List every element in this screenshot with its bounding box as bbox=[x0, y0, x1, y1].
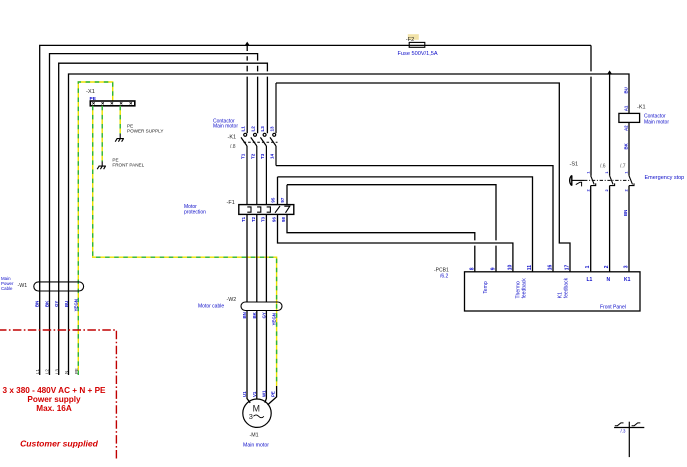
wire L1 bus bbox=[40, 45, 591, 375]
svg-text:W1: W1 bbox=[261, 390, 266, 397]
svg-text:protection: protection bbox=[184, 209, 206, 215]
svg-text:3 x 380 - 480V AC + N + PE: 3 x 380 - 480V AC + N + PE bbox=[2, 386, 106, 395]
svg-text:Front Panel: Front Panel bbox=[600, 305, 626, 311]
svg-text:T1: T1 bbox=[241, 216, 246, 222]
F1 overload element 2 bbox=[257, 207, 261, 212]
svg-text:2: 2 bbox=[605, 189, 609, 191]
terminal X1 block bbox=[90, 101, 135, 106]
chassis earth bottom right bbox=[614, 422, 644, 457]
svg-text:97: 97 bbox=[280, 197, 285, 202]
svg-text:Power supply: Power supply bbox=[27, 395, 81, 404]
S1 contact 3 bbox=[629, 176, 634, 186]
F1 aux NO element bbox=[284, 206, 290, 213]
svg-text:PE: PE bbox=[74, 368, 79, 374]
svg-text:1: 1 bbox=[586, 171, 590, 173]
svg-text:Fuse 500V/1,5A: Fuse 500V/1,5A bbox=[398, 51, 438, 57]
svg-text:-K1: -K1 bbox=[228, 135, 237, 141]
S1 actuator mark bbox=[576, 182, 582, 186]
contactor K1 pole 2 bbox=[251, 133, 257, 204]
svg-text:/.6: /.6 bbox=[600, 163, 606, 169]
svg-text:L1: L1 bbox=[35, 369, 40, 374]
svg-text:N: N bbox=[64, 371, 69, 374]
wire yegn stub green dashes bbox=[101, 106, 103, 162]
svg-text:GY: GY bbox=[261, 312, 266, 318]
motor tilde bbox=[254, 415, 264, 418]
svg-text:1: 1 bbox=[605, 171, 609, 173]
cable W2 bbox=[241, 302, 282, 311]
S1 linkage dashdot bbox=[584, 179, 630, 181]
svg-text:BK: BK bbox=[44, 300, 49, 307]
svg-text:FRONT PANEL: FRONT PANEL bbox=[112, 163, 144, 168]
S1 contact 2 bbox=[610, 176, 615, 186]
wire S1 L1 to PCB bbox=[590, 186, 592, 272]
svg-text:U1: U1 bbox=[242, 391, 247, 397]
svg-text:Main motor: Main motor bbox=[243, 443, 269, 449]
svg-text:1: 1 bbox=[585, 265, 591, 268]
svg-text:YEGN: YEGN bbox=[74, 299, 79, 311]
svg-text:BN: BN bbox=[623, 210, 628, 216]
svg-text:POWER SUPPLY: POWER SUPPLY bbox=[127, 128, 163, 133]
svg-text:-F1: -F1 bbox=[227, 200, 235, 206]
wire N bus bbox=[69, 74, 630, 375]
wire T3 F1 to W2 bbox=[265, 214, 267, 302]
svg-text:T1: T1 bbox=[241, 153, 246, 159]
svg-text:Emergency stop: Emergency stop bbox=[645, 175, 685, 181]
wire yegn X1 to motor PE green dashes bbox=[93, 106, 277, 386]
contactor K1 pole 3 bbox=[260, 133, 266, 204]
node junction N bbox=[607, 70, 612, 74]
svg-text:BK: BK bbox=[623, 142, 628, 149]
node junction L1 bbox=[245, 42, 250, 46]
svg-text:feedback: feedback bbox=[522, 278, 528, 299]
motor M1 circle bbox=[243, 399, 271, 427]
svg-text:BN: BN bbox=[242, 312, 247, 318]
wire F1-95 to PCB pin11 bbox=[278, 177, 533, 272]
wire yegn stub2 green dashes bbox=[119, 106, 121, 134]
terminal X1 screws bbox=[92, 102, 132, 104]
svg-text:A1: A1 bbox=[623, 105, 628, 111]
wire aux13 to PCB pin17 bbox=[276, 83, 570, 272]
F1 overload element 1 bbox=[247, 207, 251, 212]
svg-text:BN: BN bbox=[35, 301, 40, 307]
svg-text:10: 10 bbox=[507, 265, 513, 271]
svg-text:L2: L2 bbox=[45, 369, 50, 374]
svg-text:95: 95 bbox=[271, 197, 276, 202]
wire PE yegn green dashes bbox=[78, 82, 112, 375]
svg-text:8: 8 bbox=[469, 267, 475, 270]
svg-text:L1: L1 bbox=[587, 277, 593, 283]
wire L1 drop to contactor bbox=[246, 45, 248, 133]
wire yegn X1 to motor PE (yellow) bbox=[93, 106, 277, 386]
svg-text:Max. 16A: Max. 16A bbox=[36, 404, 72, 413]
ground PE power supply bbox=[115, 134, 124, 142]
wire F1-96 to PCB pin10 bbox=[278, 214, 513, 271]
chassis hook left bbox=[615, 423, 624, 426]
svg-text:Temp: Temp bbox=[483, 281, 489, 293]
fuse F2 bbox=[409, 42, 425, 47]
svg-text:BU: BU bbox=[623, 87, 628, 93]
wire PE into motor bbox=[268, 386, 277, 405]
wire yegn stub to front panel ground (yellow) bbox=[101, 106, 103, 162]
svg-text:-W1: -W1 bbox=[18, 283, 28, 289]
svg-text:L3: L3 bbox=[260, 126, 265, 132]
wire K1 coil to S1 bbox=[628, 122, 630, 175]
svg-text:BU: BU bbox=[64, 301, 69, 307]
svg-text:-W2: -W2 bbox=[227, 297, 237, 303]
svg-text:-S1: -S1 bbox=[570, 162, 579, 168]
PCB1 front panel box bbox=[465, 272, 641, 311]
coil K1 bbox=[619, 113, 640, 122]
wire PE yegn from bus corner to X1 (yellow) bbox=[78, 82, 112, 375]
svg-text:13: 13 bbox=[270, 126, 275, 132]
svg-text:PE: PE bbox=[270, 391, 275, 397]
wire aux14 to PCB pin16 bbox=[276, 166, 553, 272]
svg-text:M: M bbox=[253, 403, 260, 413]
svg-text:/.7: /.7 bbox=[620, 163, 626, 169]
F1 aux NC diagonal bbox=[275, 206, 280, 213]
wire S1 K1 to PCB bbox=[628, 186, 630, 272]
wire L2 bus bbox=[50, 54, 258, 375]
svg-text:T2: T2 bbox=[251, 216, 256, 222]
svg-text:/.3: /.3 bbox=[621, 429, 626, 434]
svg-text:Customer supplied: Customer supplied bbox=[20, 439, 99, 449]
svg-text:A2: A2 bbox=[623, 125, 628, 131]
svg-text:16: 16 bbox=[548, 265, 554, 271]
svg-text:14: 14 bbox=[270, 153, 275, 159]
svg-text:T2: T2 bbox=[250, 153, 255, 159]
svg-text:-K1: -K1 bbox=[637, 105, 646, 111]
wire S1 N to PCB bbox=[609, 186, 611, 272]
svg-text:YEGN: YEGN bbox=[272, 313, 277, 325]
wire F1-98 to PCB pin8 bbox=[287, 214, 475, 271]
S1 terminal labels bbox=[586, 171, 628, 191]
wire L1 drop to S1 bbox=[590, 45, 592, 175]
svg-text:T3: T3 bbox=[260, 153, 265, 159]
wire T2 F1 to W2 bbox=[256, 214, 258, 302]
svg-text:-X1: -X1 bbox=[86, 89, 95, 95]
svg-text:Main motor: Main motor bbox=[644, 119, 669, 125]
svg-text:17: 17 bbox=[565, 265, 571, 271]
svg-text:9: 9 bbox=[491, 267, 497, 270]
cable W1 bbox=[34, 282, 84, 291]
label F2 highlight bbox=[408, 34, 419, 40]
svg-text:2: 2 bbox=[604, 265, 610, 268]
svg-text:Motor cable: Motor cable bbox=[198, 303, 224, 309]
contactor linkage dashes bbox=[244, 141, 278, 143]
svg-text:V1: V1 bbox=[252, 391, 257, 397]
svg-text:/6.2: /6.2 bbox=[440, 273, 449, 279]
wire yegn stub to power supply ground (yellow) bbox=[119, 106, 121, 134]
wire W1 W2 to motor bbox=[265, 311, 267, 403]
svg-text:BK: BK bbox=[252, 311, 257, 318]
wire T1 F1 to W2 bbox=[246, 214, 248, 302]
svg-text:-M1: -M1 bbox=[250, 433, 259, 439]
svg-text:3: 3 bbox=[249, 412, 253, 421]
svg-text:T3: T3 bbox=[260, 216, 265, 222]
svg-text:-F2: -F2 bbox=[406, 37, 414, 43]
svg-text:98: 98 bbox=[281, 217, 286, 222]
svg-text:Cable: Cable bbox=[1, 286, 13, 291]
S1 contact 1 bbox=[591, 176, 596, 186]
svg-text:L2: L2 bbox=[250, 126, 255, 132]
chassis hook right bbox=[632, 423, 641, 426]
svg-text:96: 96 bbox=[271, 217, 276, 222]
contactor K1 pole 1 bbox=[241, 133, 247, 204]
svg-text:11: 11 bbox=[527, 265, 533, 271]
svg-text:2: 2 bbox=[586, 189, 590, 191]
svg-text:L1: L1 bbox=[241, 126, 246, 132]
svg-text:PE: PE bbox=[90, 96, 97, 102]
emergency stop S1 button head bbox=[570, 175, 572, 185]
contactor K1 aux pole 13-14 bbox=[270, 83, 276, 166]
svg-text:L3: L3 bbox=[54, 369, 59, 374]
wire F1-97 to PCB pin9 bbox=[287, 185, 496, 272]
motor protection F1 box bbox=[239, 205, 294, 215]
red supply box bbox=[0, 330, 116, 460]
svg-text:feedback: feedback bbox=[564, 277, 570, 298]
svg-text:K1: K1 bbox=[624, 277, 631, 283]
svg-text:3: 3 bbox=[624, 265, 630, 268]
pin labels bbox=[469, 265, 629, 271]
wire L3 bus bbox=[59, 63, 268, 375]
wire V1 W2 to motor bbox=[256, 311, 258, 400]
S1 stem bbox=[572, 179, 584, 181]
svg-text:N: N bbox=[607, 277, 611, 283]
ground PE front panel bbox=[97, 162, 106, 170]
svg-text:/.8: /.8 bbox=[230, 144, 236, 150]
wire U1 W2 to motor bbox=[247, 311, 250, 403]
wire N drop to PCB pin N bbox=[609, 74, 611, 176]
svg-text:1: 1 bbox=[625, 171, 629, 173]
svg-text:GY: GY bbox=[54, 301, 59, 307]
svg-text:Main motor: Main motor bbox=[213, 124, 238, 130]
svg-text:2: 2 bbox=[625, 189, 629, 191]
F1 overload element 3 bbox=[267, 207, 271, 212]
